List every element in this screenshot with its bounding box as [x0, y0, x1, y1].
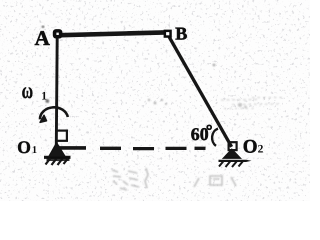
- link AB (coupler bar): [61, 32, 166, 35]
- svg-text:1: 1: [32, 145, 37, 156]
- faint noise band right of link BO2: [221, 98, 283, 109]
- pin square at O2: [229, 142, 237, 150]
- slider block square at O1: [56, 131, 67, 141]
- ground pivot O1 (triangle support): [44, 143, 71, 166]
- svg-text:O: O: [17, 137, 31, 157]
- svg-text:A: A: [35, 26, 51, 50]
- svg-text:60: 60: [191, 124, 209, 144]
- svg-text:B: B: [175, 23, 187, 43]
- ink smudge above A: [42, 26, 45, 29]
- link BO2: [169, 37, 231, 147]
- joint B (pin block): [164, 30, 172, 38]
- faint bleed-through marks bottom center: [112, 168, 236, 190]
- rotation arrow arc for omega1: [40, 107, 68, 122]
- svg-text:1: 1: [41, 90, 47, 102]
- angle arc at O2: [212, 129, 218, 146]
- link O1A (crank): [55, 37, 59, 146]
- frame line at O1 (solid start of dashed ground line): [58, 146, 87, 150]
- ground pivot O2 (triangle support): [219, 149, 252, 167]
- svg-text:ω: ω: [22, 78, 33, 103]
- svg-text:O: O: [243, 136, 258, 157]
- joint A (pin): [53, 29, 63, 38]
- svg-text:2: 2: [258, 143, 264, 155]
- dashed ground line O1-O2: [100, 147, 206, 151]
- faint dot cluster mid page: [45, 64, 215, 106]
